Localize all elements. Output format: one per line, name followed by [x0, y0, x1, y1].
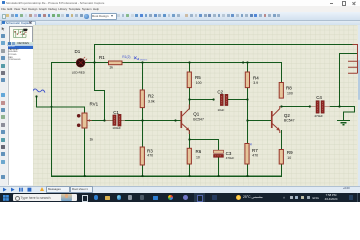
active app	[194, 193, 205, 202]
wire C4 to ground node	[330, 105, 339, 107]
wire Q1 collector to C2	[189, 99, 213, 101]
svg-text:470: 470	[252, 153, 258, 157]
wire Q2 base	[247, 119, 270, 121]
resistor R6	[187, 148, 191, 164]
node rail R6	[188, 175, 190, 177]
left panel	[7, 25, 33, 186]
clock	[322, 194, 340, 201]
battery B1 at right edge	[348, 45, 357, 74]
resistor R2	[140, 90, 144, 108]
devices list	[8, 46, 34, 185]
transistor Q1	[181, 105, 189, 134]
resistor R1	[108, 61, 121, 65]
svg-text:10: 10	[287, 156, 291, 160]
resistor R7	[245, 143, 249, 163]
svg-text:C4: C4	[316, 95, 322, 100]
wire R6 bottom	[188, 164, 190, 176]
wire to ground symbol	[339, 106, 354, 120]
svg-text:C2: C2	[217, 89, 223, 94]
svg-text:R8: R8	[286, 85, 292, 90]
resistor R9	[279, 149, 283, 163]
svg-text:100uF: 100uF	[112, 126, 121, 130]
svg-text:R6: R6	[195, 149, 201, 154]
voltage probe R1(2)	[122, 55, 147, 61]
wire Q2 collector row to C4	[281, 105, 310, 107]
sheet combobox	[91, 13, 117, 20]
wire top VCC rail	[94, 44, 352, 46]
LED D1	[76, 57, 87, 67]
wire R4 bottom to R7 column	[246, 88, 248, 146]
wire left rail	[50, 63, 52, 176]
svg-text:3.9k: 3.9k	[148, 99, 155, 103]
svg-text:3.9: 3.9	[253, 81, 258, 85]
capacitor C4	[310, 101, 330, 114]
svg-text:R7: R7	[252, 148, 258, 153]
junction node dots	[35, 61, 340, 177]
node rail RV1	[84, 175, 86, 177]
potentiometer RV1	[77, 113, 92, 128]
svg-text:1k: 1k	[89, 137, 93, 141]
overview window	[9, 26, 33, 43]
svg-text:LED-RED: LED-RED	[72, 71, 86, 75]
node Q1 emitter	[188, 138, 190, 140]
node C4 left	[309, 105, 311, 107]
wire emitter branch to C3	[189, 139, 218, 149]
svg-text:R1(2): R1(2)	[122, 55, 130, 59]
capacitor C3	[213, 150, 223, 157]
wire R2 bottom to base row	[141, 108, 143, 121]
left icon strip	[0, 25, 8, 186]
avatar on search bar	[61, 194, 72, 201]
svg-text:1k: 1k	[109, 66, 113, 70]
search box	[13, 194, 77, 201]
svg-text:Q2: Q2	[284, 113, 290, 118]
status bar	[0, 186, 360, 195]
node R4 top a	[242, 61, 244, 63]
wire wiper row to C1	[87, 119, 113, 121]
svg-text:470: 470	[147, 154, 153, 158]
wire Q1 emitter to R6	[188, 130, 190, 148]
probe mark near R7	[250, 143, 252, 145]
node Q2 collector	[280, 105, 282, 107]
node generator	[35, 95, 37, 97]
svg-text:10: 10	[196, 156, 200, 160]
toolbar	[0, 12, 360, 22]
menu bar	[0, 6, 360, 12]
task view	[82, 195, 89, 202]
tray	[283, 196, 287, 200]
node Q2 base	[246, 119, 248, 121]
wire generator to RV1 top	[36, 107, 84, 113]
wire RV1 bottom	[83, 128, 85, 176]
svg-text:10uF: 10uF	[217, 108, 224, 112]
svg-text:R1: R1	[99, 55, 105, 60]
node rail R3	[141, 175, 143, 177]
capacitor C1	[104, 114, 124, 126]
wire C1 to Q1 base	[121, 119, 180, 121]
generator V1 (sine source)	[32, 89, 45, 93]
svg-text:RV1: RV1	[89, 101, 98, 106]
devices header	[7, 42, 33, 46]
resistor R4	[245, 72, 249, 88]
ground symbol	[337, 120, 350, 124]
node rail R7	[246, 175, 248, 177]
wire battery negative drop	[339, 54, 357, 107]
canvas	[33, 25, 358, 186]
notif icon	[349, 195, 354, 200]
app icons	[94, 195, 99, 200]
transistor Q2	[272, 106, 280, 133]
wire C2 to R4 column	[228, 99, 248, 101]
wire bottom ground rail	[51, 164, 281, 176]
node VCC/R1	[93, 61, 95, 63]
wire base row to R3 top	[141, 120, 143, 146]
wire R5 top	[188, 63, 190, 72]
wire R3 bottom	[141, 165, 143, 176]
node C2 right	[246, 98, 248, 100]
right scrollbar	[358, 25, 360, 186]
wire row D1-R1-R8	[51, 62, 281, 64]
svg-text:R9: R9	[287, 150, 293, 155]
node R5 top	[188, 61, 190, 63]
resistor R5	[187, 72, 191, 88]
taskbar	[0, 193, 360, 202]
wire R7 bottom	[246, 164, 248, 176]
svg-text:470uF: 470uF	[314, 114, 323, 118]
node wiper	[103, 119, 105, 121]
svg-text:MWWV: MWWV	[140, 59, 148, 61]
svg-text:R5: R5	[195, 75, 201, 80]
svg-text:100: 100	[196, 81, 202, 85]
weather	[236, 195, 241, 200]
svg-text:100: 100	[287, 92, 293, 96]
wire R4 top	[246, 63, 248, 72]
svg-text:BC547: BC547	[284, 118, 295, 122]
start button	[3, 195, 9, 201]
node C4 right/gnd	[338, 105, 340, 107]
svg-text:470uF: 470uF	[226, 156, 235, 160]
wire C3 bottom	[217, 157, 219, 175]
wire R2 column top	[141, 63, 143, 90]
svg-text:Q1: Q1	[193, 112, 199, 117]
node Q1 collector	[188, 98, 190, 100]
node C2 left pin	[212, 98, 214, 100]
wire R8 top drop	[280, 63, 282, 83]
svg-text:R2: R2	[148, 94, 154, 99]
node R2/R3 base	[141, 119, 143, 121]
svg-text:D1: D1	[74, 49, 80, 54]
wire VCC drop to R1 node	[93, 45, 95, 63]
node Q1 base pin	[174, 119, 176, 121]
wire generator stub	[35, 97, 37, 107]
resistor R8	[279, 83, 283, 99]
wire R5 bottom to Q1 collector	[188, 88, 190, 109]
capacitor C2	[220, 94, 228, 105]
node R4 top b	[246, 61, 248, 63]
wire Q2 emitter to R9	[280, 130, 282, 149]
node R2 top	[141, 61, 143, 63]
svg-text:R4: R4	[253, 76, 259, 81]
resistor R3	[140, 147, 144, 165]
svg-text:BC547: BC547	[193, 117, 204, 121]
title bar	[0, 0, 360, 6]
node rail C3	[217, 175, 219, 177]
tab bar	[0, 21, 360, 27]
svg-text:C1: C1	[113, 110, 119, 115]
wire node to RV1 wiper / C1	[94, 63, 104, 121]
node left rail crossing	[50, 106, 52, 108]
